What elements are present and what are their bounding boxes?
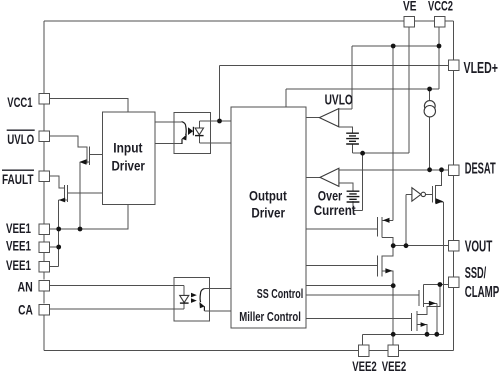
junction dot VOUT / Q3-Q4 node [391,243,396,248]
svg-text:VEE1: VEE1 [6,238,31,254]
transistor Q4 drain wire to VOUT node [382,246,393,256]
transistor Q7 source arrow [436,198,444,204]
junction dot VCC2 rail / current source [427,87,432,92]
optocoupler U1 detector arrow [182,134,187,140]
wire VOUT line [393,245,448,247]
junction dot VEE1 pin2 [56,245,61,250]
inverter U3 bubble [421,192,425,196]
junction dot VCC2 sense / Q3 drain rail [391,44,396,49]
optocoupler U1 LED cathode bar [195,135,204,137]
wire UVLO comparator output to Output Driver [306,117,319,119]
transistor Q6 source wire down to VEE2 rail [417,325,427,335]
svg-text:Driver: Driver [111,158,145,173]
inverter U3 triangle [412,188,421,202]
optocoupler U2 detector arrow [199,302,204,308]
junction dot VCC2 sense / VCC2 vertical [437,44,442,49]
wire FAULT pin to Q2 gate [49,176,64,188]
transistor Q2 source wire [59,199,68,201]
svg-text:VCC2: VCC2 [428,0,453,14]
junction dot Q4 source node [391,283,396,288]
inverter U3 output wire to Q7 gate [426,193,433,195]
wire VE pin vertical [408,27,410,153]
pin VEE1 (1) [39,224,50,235]
pin VEE2 (2) [388,345,399,357]
svg-text:AN: AN [18,278,33,294]
current source I1 circle lower [424,106,435,117]
current source I1 bottom wire to DESAT line [429,117,431,170]
svg-text:UVLO: UVLO [7,131,34,147]
svg-text:Miller Control: Miller Control [239,310,301,324]
optocoupler U1 box [174,113,211,154]
transistor Q7 gate bar [432,186,434,203]
optocoupler U1 LED vertical [198,121,200,143]
reference battery B1 (UVLO) plates [346,133,359,144]
svg-text:Driver: Driver [251,205,285,220]
optocoupler U1 emitting diode triangle [188,127,193,135]
optocoupler U2 output wire lower to Output Driver [204,310,230,312]
comparator Over Current triangle [320,168,339,186]
junction dot VEE2 rail / Q6 source [425,332,430,337]
svg-text:DESAT: DESAT [465,161,496,178]
wire VE net down to over-current reference [353,153,363,211]
svg-text:CLAMP: CLAMP [465,284,500,301]
junction dot VEE1 / Q2 source [56,227,61,232]
wire UVLO pin to Q1 gate [49,136,87,147]
inverter U3 input wire [406,193,412,195]
transistor Q5 source arrow [429,301,436,306]
wire Q4 source node down to VEE2 rail [392,286,394,335]
wire Miller Control to Q6 gate [306,318,411,320]
optocoupler U2 light arrow upper [191,293,197,298]
junction dot DESAT / Q7 drain [439,167,444,172]
pin UVLO [39,131,50,142]
svg-text:Over: Over [318,189,343,204]
svg-text:Current: Current [314,203,356,218]
pin VEE1 (3) [39,261,50,272]
transistor Q2 gate bar [64,185,66,200]
wire VEE1 pin1 to Input Driver bottom [49,205,128,230]
transistor Q1 gate bar [86,146,88,163]
svg-text:VCC1: VCC1 [7,94,32,110]
svg-text:Input: Input [113,141,143,156]
wire Output Driver clamp stub to Q4 source node [306,285,393,287]
wire Q2 source down VEE1 rail [58,200,60,267]
pin VCC1 [39,93,50,104]
transistor Q3 gate bar [377,217,379,237]
pin VEE1 (2) [39,242,50,253]
optocoupler U1 detector emitter line [181,139,183,144]
transistor Q3 drain wire from VCC2 rail [382,46,393,220]
transistor Q3 source wire to VOUT node [382,237,393,245]
junction dot VOUT / inverter input [404,243,409,248]
junction dot DESAT / current source [427,167,432,172]
wire Q1 source down to VEE1 net [79,162,81,229]
wire SSD/CLAMP line to Q5 drain [424,285,449,289]
junction dot VEE1 / Q1 source [78,227,83,232]
wire Input Driver to optocoupler U1 lower [155,143,182,145]
wire UVLO reference top [339,127,353,133]
wire SS Control to Q5 gate [306,294,419,296]
optocoupler U1 LED diode triangle [195,128,203,135]
transistor Q2 channel bar [66,185,68,202]
wire VEE2 pin1 riser [362,334,364,345]
block Output Driver box [231,107,306,328]
wire CA pin to optocoupler U2 [49,308,184,310]
transistor Q3 channel bar [381,217,383,238]
wire UVLO comparator input top [339,108,352,110]
junction dot SSD/CLAMP / Q6 drain [438,282,443,287]
package outline left edge [43,21,45,351]
label pin FAULT overline [2,169,34,171]
transistor Q1 source arrow [79,159,86,164]
wire Input Driver to optocoupler U1 upper [155,121,182,123]
optocoupler U1 emitting diode bar [192,127,194,136]
transistor Q7 channel bar [435,185,437,204]
pin SSD/CLAMP [449,277,460,288]
svg-text:VEE1: VEE1 [6,257,31,273]
transistor Q3 drain arrow [383,218,390,223]
optocoupler U2 detector body curve [200,289,204,303]
pin FAULT [39,171,50,182]
svg-text:SS Control: SS Control [257,287,303,301]
transistor Q1 source wire [80,161,90,163]
transistor Q4 gate bar [376,256,378,277]
wire DESAT sense line [339,169,449,171]
current source I1 circle upper [424,101,435,112]
wire over-current comparator output to Output Driver [306,176,320,178]
svg-text:VEE2: VEE2 [382,358,407,371]
transistor Q6 channel bar [416,311,418,331]
wire to VLED+ pin [220,65,449,67]
pin VLED+ [449,60,460,71]
wire VEE1 pin3 stub [49,266,58,268]
wire Output Driver to Q3 gate [306,228,378,230]
transistor Q4 source wire [382,271,393,286]
junction dot VE wire / reference net [360,151,365,156]
wire inverter input riser to VOUT net [405,194,407,245]
pin DESAT [449,165,460,176]
reference battery B2 (Over Current) plates [347,191,360,202]
junction dot VEE2 rail / pin2 [391,332,396,337]
wire VCC2 sense to UVLO comparator [352,46,439,109]
transistor Q6 drain wire up to SSD/CLAMP net [417,285,440,315]
transistor Q2 source arrow [59,198,66,203]
svg-text:FAULT: FAULT [2,171,34,187]
optocoupler U1 detector body curve [182,122,187,136]
wire over-current reference top [339,183,353,191]
transistor Q5 channel bar [423,289,425,307]
transistor Q4 source arrow [385,268,392,273]
pin VE [404,16,415,27]
package outline bottom edge [44,350,454,352]
optocoupler U2 LED cathode-anode vertical [183,286,185,310]
optocoupler U1 LED loop top wire [199,120,231,122]
optocoupler U2 LED cathode bar [180,302,189,304]
svg-text:VE: VE [403,0,417,14]
transistor Q2 drain wire to Input Driver [67,192,102,194]
transistor Q1 drain wire to Input Driver [90,153,103,155]
wire VE to reference bottoms [353,152,409,154]
svg-text:SSD/: SSD/ [465,265,487,282]
svg-text:Output: Output [249,189,287,204]
wire VCC2 rail horizontal to current source [286,88,439,90]
optocoupler U2 output wire upper to Output Driver [204,287,230,289]
pin CA [39,304,50,315]
svg-text:VEE2: VEE2 [352,358,377,371]
pin AN [39,280,50,291]
comparator UVLO triangle [319,109,338,127]
wire VEE2 bottom rail [363,333,444,335]
wire VEE1 pin2 stub [49,246,58,248]
wire VEE2 pin2 riser [392,334,394,345]
wire Output Driver to Q4 gate [306,265,377,267]
block Input Driver box [103,112,156,205]
svg-text:VEE1: VEE1 [6,220,31,236]
package outline top edge [44,20,454,22]
transistor Q6 source arrow [421,322,427,327]
wire VCC2 pin vertical [438,27,440,89]
wire node VLED junction riser [219,66,221,122]
current source I1 top wire [429,89,431,101]
pin VOUT [449,240,460,251]
svg-text:UVLO: UVLO [325,91,353,108]
optocoupler U2 light arrow lower [191,298,197,303]
package outline right edge [453,21,455,351]
svg-text:CA: CA [18,302,33,318]
pin VCC2 [435,16,446,27]
transistor Q5 source wire down to VEE2 rail [424,303,437,334]
transistor Q4 channel bar [381,256,383,277]
transistor Q1 channel bar [89,146,91,165]
junction dot at opto U1 / VLED+ [217,119,222,124]
optocoupler U2 box [174,277,210,321]
wire Output Driver top stub to VCC2 net [285,89,287,107]
label pin UVLO overline [7,129,35,131]
svg-text:VOUT: VOUT [465,239,493,256]
junction dot VEE2 rail / Q5 source [434,332,439,337]
wire UVLO reference bottom stub [352,144,354,153]
wire AN pin to optocoupler U2 [49,285,184,287]
transistor Q7 source wire [436,201,444,203]
optocoupler U2 detector emitter line [203,306,205,310]
wire VCC1 to Input Driver [49,99,128,112]
optocoupler U2 LED diode triangle [180,295,189,302]
optocoupler U1 LED loop bottom wire [199,142,231,144]
wire Q7 source down to VEE2 rail [442,202,444,334]
svg-text:VLED+: VLED+ [464,60,499,77]
transistor Q6 gate bar [410,313,412,331]
pin VEE2 (1) [358,345,369,357]
transistor Q5 gate bar [418,290,420,306]
transistor Q7 drain wire from DESAT line [436,170,442,186]
